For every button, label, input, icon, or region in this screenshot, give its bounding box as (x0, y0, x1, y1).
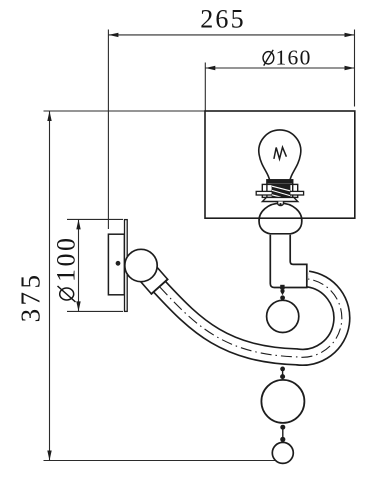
bead above small ball (280, 295, 285, 300)
bead below large ball (280, 425, 285, 430)
dimension phi100 arrows (76, 219, 80, 311)
dimension 265 arrows (108, 33, 354, 37)
neck cap line (151, 279, 168, 295)
knob below bracket (280, 285, 284, 290)
joint neck (133, 258, 168, 294)
arm bracket (270, 235, 307, 288)
socket body (262, 184, 297, 197)
svg-text:375: 375 (16, 272, 46, 323)
arm centerline (dash-dot) (160, 279, 342, 357)
socket flange (256, 191, 303, 195)
curved arm tube (160, 279, 342, 357)
svg-text:160: 160 (276, 46, 312, 70)
socket ball (259, 203, 302, 234)
dimension 265 line (108, 30, 354, 230)
bottom ball (272, 442, 293, 463)
lamp shade rectangle (205, 111, 355, 218)
small ball (267, 300, 299, 332)
dimension phi100 line (67, 219, 123, 311)
dimension phi160 line (205, 63, 354, 112)
bead stem (282, 370, 284, 375)
bead below arm tube (280, 367, 285, 372)
socket skirt (262, 197, 297, 201)
wall ball joint (125, 249, 157, 281)
bead above bottom ball (280, 437, 285, 442)
light bulb (259, 130, 301, 181)
bead stem (282, 429, 284, 438)
svg-text:100: 100 (52, 236, 81, 283)
svg-text:265: 265 (200, 5, 246, 34)
wall mounting box (108, 234, 124, 295)
dimension phi160 text (263, 46, 312, 70)
socket nub (278, 202, 284, 206)
socket threads scribble (272, 184, 291, 198)
dimension phi160 arrows (205, 66, 354, 70)
large ball (261, 380, 304, 423)
bulb filament mark (274, 147, 287, 159)
wall plate (125, 220, 128, 312)
socket cap (267, 180, 293, 185)
screw (116, 261, 121, 266)
bead above large ball (280, 374, 285, 379)
dimension phi100 text (52, 236, 81, 303)
dimension 375 arrows (47, 111, 51, 461)
dimension 375 line (44, 111, 280, 461)
